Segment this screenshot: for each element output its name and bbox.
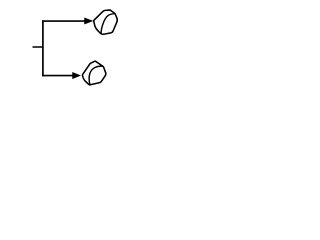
node: top blob facet line [101, 14, 115, 35]
arrowhead bottom [73, 72, 81, 78]
node: top blob outline [94, 10, 118, 34]
arrowhead top [85, 18, 93, 24]
background [0, 0, 150, 96]
wire: vertical trunk [42, 20, 44, 76]
wire: bottom branch [42, 75, 73, 77]
node: bottom blob facet line [89, 66, 103, 84]
node: bottom blob outline [82, 61, 105, 85]
wire: left stub [33, 46, 44, 48]
wire: top branch [42, 20, 85, 22]
